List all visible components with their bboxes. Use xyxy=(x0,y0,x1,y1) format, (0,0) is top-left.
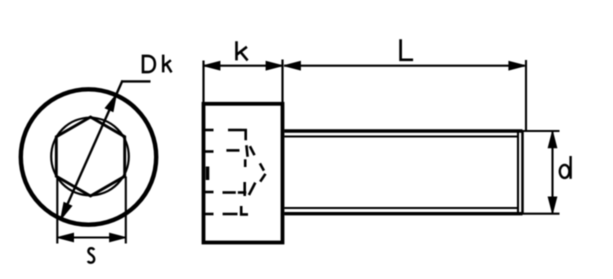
shank top thread line xyxy=(284,135,518,137)
head outer circle (Dk diameter) xyxy=(21,89,156,224)
d arrowhead top xyxy=(549,132,557,148)
Dk leader horizontal segment xyxy=(121,80,150,82)
shank bottom thread line xyxy=(284,207,518,209)
label d : stem xyxy=(569,156,571,179)
label Dk : letter D xyxy=(143,56,155,72)
hidden socket bottom vertical dash b1 xyxy=(246,145,247,157)
hidden socket dash: row4 mid dash xyxy=(223,213,238,216)
hidden socket dash: row2 mid dash xyxy=(226,149,239,152)
label d : bowl xyxy=(560,165,570,178)
shank end face line xyxy=(521,131,524,214)
s extension line left xyxy=(56,177,58,244)
hidden socket dash: left face vertical dash at axis xyxy=(206,167,210,181)
Dk dimension line (diagonal diameter) xyxy=(61,81,123,219)
k extension line left xyxy=(202,61,204,104)
k extension line right / L extension left xyxy=(281,60,283,104)
L arrowhead left xyxy=(285,62,301,70)
Dk arrowhead lower xyxy=(61,203,71,219)
s arrowhead right xyxy=(110,234,126,242)
hidden socket bottom vertical dash g xyxy=(243,182,246,196)
d dimension line xyxy=(551,131,553,214)
hidden socket dash: row3 mid dash xyxy=(223,191,236,194)
hidden socket cone lower dash f xyxy=(249,183,255,195)
hidden socket bottom vertical dash b2 xyxy=(244,159,247,167)
shank bottom outer line xyxy=(284,212,522,215)
shank top outer line xyxy=(284,129,522,132)
Dk arrowhead upper xyxy=(106,95,116,111)
L dimension line xyxy=(284,65,525,67)
d extension line bottom xyxy=(523,213,560,215)
hidden socket dash: row2 tick at left face xyxy=(205,150,214,153)
d extension line top xyxy=(523,130,560,132)
label s xyxy=(88,248,94,262)
s dimension line xyxy=(57,236,126,238)
L arrowhead right xyxy=(509,62,524,70)
d arrowhead bottom xyxy=(549,197,557,213)
hidden socket cone apex dash e xyxy=(260,174,265,182)
s arrowhead left xyxy=(58,234,74,242)
hidden socket dash: row3 tick at left face xyxy=(205,191,214,194)
hidden socket dash: row3 end dash xyxy=(238,191,247,194)
head rectangle xyxy=(204,104,283,243)
label Dk : letter k xyxy=(163,55,171,73)
k arrowhead right xyxy=(266,62,282,70)
hidden socket cone upper dash d xyxy=(260,163,264,170)
shank end chamfer line xyxy=(517,133,519,213)
hidden socket dash: row1 corner dash xyxy=(241,130,245,140)
socket inner circle xyxy=(51,118,129,196)
hidden socket dash: row1 mid dash xyxy=(228,129,242,132)
hidden socket cone upper dash c xyxy=(250,146,255,155)
hidden socket dash: row1 tick at left face xyxy=(205,129,214,132)
label L xyxy=(401,39,414,60)
label k xyxy=(237,41,248,60)
s extension line right xyxy=(125,177,127,244)
k arrowhead left xyxy=(204,62,220,70)
L extension line right xyxy=(525,60,527,131)
k dimension line xyxy=(204,65,283,67)
hidden socket dash: row4 tick at left face xyxy=(205,213,214,216)
hex socket hexagon xyxy=(56,117,124,196)
hidden socket dash: row4 corner dash xyxy=(241,206,248,214)
